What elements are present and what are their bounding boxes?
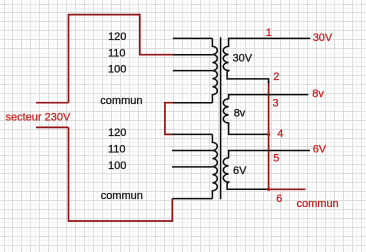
svg-text:100: 100 xyxy=(108,64,126,76)
primary winding bottom L2 xyxy=(212,134,217,198)
wire common bus right xyxy=(268,81,270,189)
wire tap 120 top xyxy=(173,37,213,39)
svg-text:30V: 30V xyxy=(233,53,253,65)
wire tap commun top xyxy=(173,102,212,104)
svg-text:4: 4 xyxy=(277,128,283,140)
svg-text:5: 5 xyxy=(273,153,279,165)
secondary winding 8v L4 xyxy=(223,95,308,135)
wire jumper commun-120 xyxy=(165,103,173,135)
svg-text:8v: 8v xyxy=(312,88,324,100)
wire tap 120 bottom xyxy=(172,133,212,135)
svg-text:3: 3 xyxy=(273,97,279,109)
wire pin6 lead xyxy=(269,188,306,190)
svg-text:110: 110 xyxy=(108,48,126,60)
svg-text:commun: commun xyxy=(101,190,143,202)
svg-text:8v: 8v xyxy=(234,108,246,120)
svg-text:100: 100 xyxy=(108,160,126,172)
wire tap 100 bottom xyxy=(172,166,212,168)
svg-text:120: 120 xyxy=(108,127,126,139)
junction node pin6 xyxy=(267,188,270,191)
wire tap commun bottom xyxy=(172,198,212,200)
secondary winding 6V L5 xyxy=(223,151,310,190)
junction node pin4 xyxy=(267,133,270,136)
wire left vertical top loop xyxy=(69,15,174,103)
wire tap 100 top xyxy=(173,70,213,72)
secondary winding 30V L3 xyxy=(223,38,310,83)
primary winding top L1 xyxy=(212,38,217,102)
svg-text:secteur 230V: secteur 230V xyxy=(6,112,71,124)
wire tap 110 bottom xyxy=(172,150,212,152)
svg-text:120: 120 xyxy=(108,31,126,43)
wire secteur bottom stub xyxy=(36,126,69,128)
svg-text:6V: 6V xyxy=(233,165,247,177)
svg-text:1: 1 xyxy=(266,27,272,39)
wire secteur top stub xyxy=(36,102,69,104)
svg-text:6V: 6V xyxy=(313,143,327,155)
wire left vertical bottom loop xyxy=(69,127,173,221)
svg-text:30V: 30V xyxy=(313,32,333,44)
svg-text:2: 2 xyxy=(273,71,279,83)
wire tap 110 top xyxy=(173,54,212,56)
svg-text:commun: commun xyxy=(297,198,339,210)
transformer core xyxy=(220,37,222,199)
svg-text:6: 6 xyxy=(276,193,282,205)
svg-text:commun: commun xyxy=(100,95,142,107)
svg-text:110: 110 xyxy=(108,144,126,156)
